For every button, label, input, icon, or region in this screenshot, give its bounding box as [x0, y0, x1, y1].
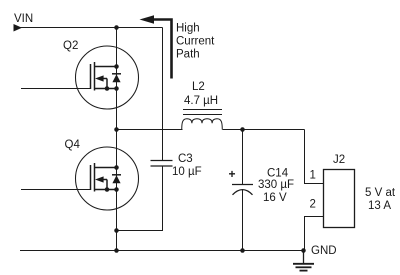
wire switch node to inductor [117, 129, 183, 131]
svg-text:Path: Path [176, 49, 200, 61]
svg-text:GND: GND [311, 245, 337, 257]
wire VIN drop to C3 [162, 28, 164, 161]
junction C14 top [240, 127, 245, 132]
svg-text:330 µF: 330 µF [258, 179, 294, 191]
svg-text:Current: Current [176, 36, 215, 48]
ground [293, 251, 314, 271]
wire C3 bottom return [117, 166, 163, 231]
svg-text:5 V at: 5 V at [365, 187, 396, 199]
svg-text:4.7 µH: 4.7 µH [184, 95, 218, 107]
svg-text:+: + [229, 167, 236, 181]
inductor L2 [182, 110, 223, 130]
wire C14 top lead [242, 130, 244, 185]
svg-text:Q4: Q4 [65, 139, 81, 151]
wire Q2 gate lead [21, 88, 91, 90]
high current path arrow [140, 15, 172, 78]
svg-text:13 A: 13 A [368, 200, 391, 212]
svg-text:L2: L2 [192, 81, 205, 93]
connector J2 [324, 170, 355, 228]
capacitor C14 [232, 185, 253, 195]
junction C3 return [114, 228, 119, 233]
wire top VIN rail [20, 27, 163, 29]
wire inductor to output column [223, 129, 305, 131]
svg-text:J2: J2 [333, 154, 345, 166]
junction node top rail / Q2 drain [114, 25, 119, 30]
wire Q2 drain column [116, 28, 118, 251]
svg-text:1: 1 [310, 169, 316, 181]
svg-text:2: 2 [310, 199, 316, 211]
svg-text:C3: C3 [178, 153, 193, 165]
svg-text:High: High [176, 23, 200, 35]
transistor Q4 [76, 147, 139, 210]
svg-text:16 V: 16 V [263, 192, 287, 204]
svg-text:Q2: Q2 [63, 40, 78, 52]
junction switch node [114, 127, 119, 132]
wire C14 bottom lead [242, 190, 244, 251]
wire Q4 gate lead [21, 189, 91, 191]
junction Q4 source / ground rail [114, 248, 119, 253]
junction C14 bottom [240, 248, 245, 253]
capacitor C3 [151, 161, 173, 167]
svg-text:C14: C14 [267, 168, 289, 180]
junction ground node [301, 248, 306, 253]
VIN input arrow [14, 24, 23, 32]
wire output down to pin 1 [305, 130, 324, 184]
svg-text:VIN: VIN [14, 13, 33, 25]
svg-text:10 µF: 10 µF [172, 166, 202, 178]
transistor Q2 [76, 46, 139, 109]
wire pin 2 to ground rail [305, 217, 324, 251]
wire bottom ground rail [20, 250, 305, 252]
